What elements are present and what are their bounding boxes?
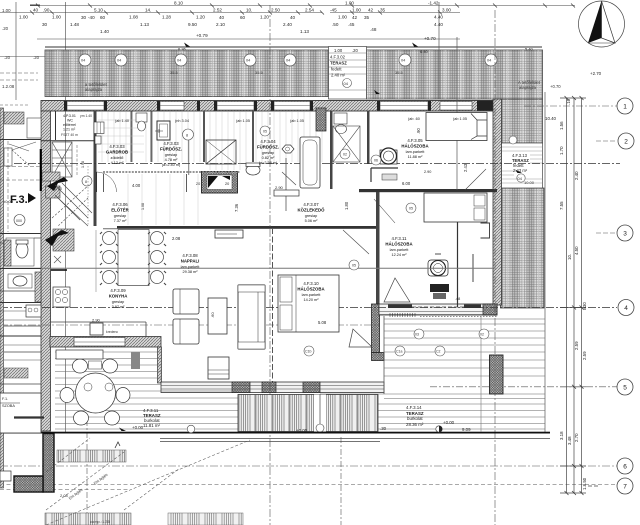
svg-text:1.00: 1.00 <box>338 15 347 20</box>
svg-text:1.00: 1.00 <box>52 15 61 20</box>
svg-text:GARDROB: GARDROB <box>106 150 128 155</box>
bathroom walls verticals <box>330 111 333 189</box>
svg-text:3.18: 3.18 <box>559 431 564 440</box>
svg-text:előtérrel: előtérrel <box>63 123 76 127</box>
svg-text:4.F.3.03: 4.F.3.03 <box>163 141 179 146</box>
annex dashed lines <box>0 141 41 232</box>
section line through kitchen <box>0 267 493 269</box>
svg-text:04: 04 <box>246 59 250 63</box>
svg-text:02: 02 <box>480 333 484 337</box>
section arrow upper at west wall <box>42 172 60 181</box>
wall pier above bathtub <box>316 108 326 131</box>
svg-text:+0.70: +0.70 <box>550 84 561 89</box>
svg-text:WC: WC <box>67 119 73 123</box>
svg-text:1.28: 1.28 <box>162 15 171 20</box>
svg-text:42: 42 <box>352 15 358 20</box>
svg-text:30: 30 <box>42 22 48 27</box>
svg-text:0.82 m²: 0.82 m² <box>262 156 276 160</box>
terrace filled circle markers <box>187 425 442 433</box>
top dimension tick marks <box>30 4 575 15</box>
svg-text:.45: .45 <box>348 22 355 27</box>
svg-text:.90: .90 <box>43 8 50 13</box>
small flag arrows on roof top edge <box>184 43 418 95</box>
svg-text:F.1.: F.1. <box>2 397 8 401</box>
vertical axis x457 <box>456 37 458 190</box>
vertical axis x439 top <box>438 2 440 99</box>
svg-text:8.10: 8.10 <box>174 1 183 6</box>
side table <box>208 357 229 379</box>
svg-text:1.13: 1.13 <box>140 22 149 27</box>
bathroom tile grid light lines <box>98 112 322 225</box>
kitchen hob counter <box>53 287 70 307</box>
svg-text:5.06 m²: 5.06 m² <box>305 219 319 223</box>
svg-text:8: 8 <box>85 180 87 184</box>
svg-text:14.20 m²: 14.20 m² <box>304 298 320 302</box>
bedroom2 right partition <box>457 222 459 307</box>
svg-text:05: 05 <box>352 264 356 268</box>
svg-text:lam.parkett: lam.parkett <box>302 293 322 297</box>
svg-text:1.70: 1.70 <box>559 146 564 155</box>
svg-text:2.90: 2.90 <box>92 318 101 323</box>
svg-text:.20: .20 <box>2 26 9 31</box>
svg-text:.90: .90 <box>416 128 421 134</box>
svg-text:±0.00: ±0.00 <box>3 199 14 204</box>
svg-text:30: 30 <box>81 15 87 20</box>
svg-text:2.40: 2.40 <box>283 22 292 27</box>
svg-text:5.08: 5.08 <box>318 320 327 325</box>
svg-text:1.00: 1.00 <box>334 48 343 53</box>
bedroom2 tv cabinet <box>430 284 449 292</box>
svg-text:.48: .48 <box>455 297 460 301</box>
svg-text:42: 42 <box>368 8 374 13</box>
pier below south glass wall <box>372 304 380 353</box>
svg-text:7.36: 7.36 <box>234 203 239 212</box>
svg-text:1.00: 1.00 <box>352 8 361 13</box>
right terrace label <box>380 405 471 432</box>
annex washbasin <box>8 274 32 288</box>
svg-text:FÜRDŐSZ.: FÜRDŐSZ. <box>160 147 182 152</box>
top dimension text row 1 <box>33 1 451 13</box>
svg-text:1.00: 1.00 <box>2 8 11 13</box>
axis mid living <box>0 324 379 326</box>
svg-text:35.5: 35.5 <box>395 70 404 75</box>
svg-text:35: 35 <box>364 15 370 20</box>
svg-text:04: 04 <box>286 59 290 63</box>
circle tag bathroom1 <box>183 129 194 140</box>
svg-text:4.00: 4.00 <box>132 183 141 188</box>
interior dimension texts <box>115 117 468 325</box>
svg-text:fedett: fedett <box>331 67 342 72</box>
roof hatch right wing lower <box>501 188 545 308</box>
terrace edge thick line <box>0 170 550 434</box>
living room sofa <box>238 285 265 349</box>
bath2 door diagonal <box>282 172 296 185</box>
window openings in north wall <box>67 102 472 111</box>
dark window frame blocks <box>64 101 499 111</box>
vertical axis x341 bottom <box>340 437 342 525</box>
svg-text:alaprajza: alaprajza <box>85 87 103 92</box>
svg-text:(ab 1.40: (ab 1.40 <box>115 119 129 123</box>
svg-text:ym 1.40: ym 1.40 <box>80 114 92 118</box>
annex hatched pier mid <box>4 240 11 266</box>
svg-text:2.70: 2.70 <box>574 433 579 442</box>
section cut arrow black <box>45 230 69 246</box>
svg-text:.30: .30 <box>380 426 387 431</box>
svg-text:04: 04 <box>81 59 85 63</box>
corridor beam dashed line <box>103 171 240 173</box>
svg-text:4.F.3.10: 4.F.3.10 <box>303 281 319 286</box>
svg-text:.20: .20 <box>4 55 11 60</box>
svg-text:3.00: 3.00 <box>442 8 451 13</box>
vertical line x545 terrace edge <box>544 92 546 433</box>
svg-text:1.48: 1.48 <box>70 22 79 27</box>
svg-text:lam.parkett: lam.parkett <box>406 150 426 154</box>
kitchen dining table <box>118 230 149 286</box>
svg-text:20: 20 <box>225 182 229 186</box>
svg-text:2.59: 2.59 <box>574 341 579 350</box>
svg-text:4.F.3.06: 4.F.3.06 <box>112 202 128 207</box>
vertical axis x270 <box>269 5 271 525</box>
top dimension text row 3 <box>42 22 443 41</box>
wc toilet near chimney <box>246 163 260 175</box>
svg-text:2.40: 2.40 <box>574 171 579 180</box>
bedroom1 south wall <box>359 189 497 192</box>
svg-text:11.81 m²: 11.81 m² <box>143 423 161 428</box>
roof hatch right wing upper <box>501 99 543 143</box>
svg-text:(ab .60: (ab .60 <box>408 117 420 121</box>
svg-text:40: 40 <box>290 15 296 20</box>
terrace boundary verticals <box>480 316 482 432</box>
svg-text:10.00: 10.00 <box>524 180 535 185</box>
svg-text:5.10: 5.10 <box>94 8 103 13</box>
south glass wall of bedrooms <box>379 304 497 317</box>
svg-text:4.12 m²: 4.12 m² <box>111 161 125 165</box>
svg-text:(ab 1.05: (ab 1.05 <box>236 119 250 123</box>
kitchen counter edge <box>51 269 67 271</box>
svg-text:11.88 m²: 11.88 m² <box>408 155 423 159</box>
north exterior wall band <box>41 101 499 112</box>
svg-text:C1a: C1a <box>396 350 402 354</box>
pergola hatch on middle terrace <box>238 395 378 433</box>
svg-text:6.00: 6.00 <box>402 181 411 186</box>
svg-text:.20: .20 <box>352 48 358 53</box>
svg-text:1.00: 1.00 <box>19 15 28 20</box>
axis tag circles interior <box>260 126 517 270</box>
svg-text:40: 40 <box>219 15 225 20</box>
axis line 7b <box>0 489 130 491</box>
svg-text:05: 05 <box>409 207 413 211</box>
svg-text:04: 04 <box>344 81 349 86</box>
outdoor bench top <box>56 350 103 359</box>
svg-text:FÜRDŐSZ.: FÜRDŐSZ. <box>257 145 279 150</box>
axis line A horizontal <box>0 163 620 165</box>
svg-text:4.F.3.07: 4.F.3.07 <box>303 202 319 207</box>
roof hatch top band right <box>367 47 543 99</box>
garden wall corner horizontal <box>14 476 43 492</box>
svg-text:7.37 m²: 7.37 m² <box>114 219 128 223</box>
svg-text:04: 04 <box>487 59 491 63</box>
svg-text:3.48: 3.48 <box>567 436 572 445</box>
vertical axis x494 dashed <box>494 10 496 525</box>
svg-text:3: 3 <box>623 231 627 238</box>
entry stairs diagonals <box>52 183 92 220</box>
svg-text:1.80: 1.80 <box>344 201 349 210</box>
svg-text:35.5: 35.5 <box>170 70 179 75</box>
svg-text:9.50: 9.50 <box>188 22 197 27</box>
svg-text:35.5: 35.5 <box>255 70 264 75</box>
svg-text:HÁLÓSZOBA: HÁLÓSZOBA <box>297 287 324 292</box>
svg-text:2.08: 2.08 <box>172 236 181 241</box>
slope dashed diagonals <box>46 438 250 525</box>
paving strip upper <box>57 450 126 462</box>
svg-text:(nh 3.04: (nh 3.04 <box>175 119 189 123</box>
svg-text:1.20: 1.20 <box>196 15 205 20</box>
kitchen sink small block <box>131 352 140 369</box>
entry small room walls <box>41 111 97 141</box>
svg-text:10.: 10. <box>246 8 252 13</box>
living room armchair 2 <box>173 319 199 344</box>
paving strip bottom <box>45 513 131 525</box>
svg-text:05: 05 <box>263 130 267 134</box>
svg-text:4.50: 4.50 <box>574 246 579 255</box>
bathroom2 washbasin hexagon <box>282 145 294 153</box>
svg-text:.60: .60 <box>210 312 215 318</box>
svg-text:000: 000 <box>16 219 22 223</box>
svg-text:.50: .50 <box>332 22 339 27</box>
svg-text:+0.00: +0.00 <box>132 425 144 430</box>
svg-text:NAPPALI: NAPPALI <box>181 259 200 264</box>
svg-text:4.78 m²: 4.78 m² <box>165 158 179 162</box>
svg-text:FSZT 40 m: FSZT 40 m <box>61 133 78 137</box>
svg-text:HÁLÓSZOBA: HÁLÓSZOBA <box>401 144 428 149</box>
svg-text:4.F.3.11: 4.F.3.11 <box>392 236 408 241</box>
svg-text:6: 6 <box>623 464 627 471</box>
corridor south wall <box>117 226 376 229</box>
svg-text:28.36 m²: 28.36 m² <box>406 422 424 427</box>
svg-text:1.21 m²: 1.21 m² <box>63 128 76 132</box>
svg-text:TERASZ: TERASZ <box>330 61 347 66</box>
axis to circle 3 <box>596 232 617 234</box>
bedroom1 stove <box>380 148 397 164</box>
F.3. arrow <box>28 193 36 203</box>
svg-text:-40: -40 <box>88 15 95 20</box>
svg-text:4.P.3.01: 4.P.3.01 <box>63 114 76 118</box>
bathroom1 washbasin <box>157 121 170 140</box>
svg-text:3.97 m²: 3.97 m² <box>112 305 126 309</box>
entry door arc <box>97 172 117 192</box>
svg-text:lam.parkett: lam.parkett <box>181 265 201 269</box>
svg-text:4.F.3.14: 4.F.3.14 <box>406 405 422 410</box>
svg-text:7: 7 <box>623 484 627 491</box>
covered terrace gap in right wing <box>501 143 543 188</box>
svg-text:2.52: 2.52 <box>213 8 222 13</box>
annex west wall <box>0 108 4 488</box>
covered terrace gap in top band <box>329 47 367 100</box>
svg-text:7.55: 7.55 <box>559 201 564 210</box>
svg-text:04: 04 <box>177 59 181 63</box>
svg-text:5: 5 <box>623 385 627 392</box>
svg-text:10.: 10. <box>567 254 572 260</box>
chimney block <box>196 172 238 194</box>
svg-text:greslap: greslap <box>165 153 177 157</box>
svg-text:2: 2 <box>624 139 628 146</box>
svg-text:(a=2.58 m): (a=2.58 m) <box>259 161 278 165</box>
svg-text:1.20: 1.20 <box>260 15 269 20</box>
svg-text:1.56: 1.56 <box>559 121 564 130</box>
bathroom1 shower <box>206 140 236 164</box>
annex storage hatch <box>4 368 28 378</box>
axis line 4 horizontal <box>0 307 617 309</box>
svg-text:1.40: 1.40 <box>100 29 109 34</box>
svg-text:2.10: 2.10 <box>216 22 225 27</box>
svg-text:+2.70: +2.70 <box>590 71 602 76</box>
svg-text:4.F.3.05: 4.F.3.05 <box>407 138 423 143</box>
svg-text:1.08: 1.08 <box>141 203 145 210</box>
annex dark kitchen block <box>26 305 41 317</box>
svg-text:12.24 m²: 12.24 m² <box>392 253 408 257</box>
top dimension chain lines <box>0 2 575 433</box>
svg-text:10.40: 10.40 <box>545 116 557 121</box>
axis to circle 2 <box>596 140 617 142</box>
west exterior wall (hatched vertical) <box>41 111 51 431</box>
svg-text:burkolat: burkolat <box>407 416 423 421</box>
svg-text:2.40 m²: 2.40 m² <box>331 73 346 78</box>
svg-text:KÖZLEKEDŐ: KÖZLEKEDŐ <box>298 208 326 213</box>
left margin small texts <box>2 8 40 89</box>
x mark <box>54 256 61 263</box>
svg-text:6.40: 6.40 <box>420 49 429 54</box>
svg-text:2.90: 2.90 <box>275 185 284 190</box>
svg-text:C1b: C1b <box>305 350 311 354</box>
connector wall x159 <box>158 347 162 383</box>
door swings <box>58 169 486 254</box>
roof hatch top band left <box>45 47 329 97</box>
svg-text:04: 04 <box>401 59 405 63</box>
svg-text:29.38 m²: 29.38 m² <box>183 270 199 274</box>
svg-text:1.98: 1.98 <box>81 161 85 168</box>
svg-text:comp.:1.35: comp.:1.35 <box>90 519 111 524</box>
svg-text:+0.79: +0.79 <box>196 33 208 38</box>
living room armchair 1 <box>173 289 199 314</box>
gardrob diagonal wardrobe <box>52 142 72 177</box>
svg-text:8: 8 <box>186 134 188 138</box>
svg-text:06: 06 <box>374 159 378 163</box>
svg-text:60: 60 <box>240 15 246 20</box>
svg-text:(ab 1.05: (ab 1.05 <box>453 117 467 121</box>
wc small between gardrob and bath <box>136 113 147 122</box>
svg-text:.48: .48 <box>370 27 377 32</box>
svg-text:SZOBA: SZOBA <box>2 404 15 408</box>
axis to circle 5 <box>430 386 617 388</box>
svg-text:04: 04 <box>518 176 523 181</box>
ramp triangle markers <box>349 278 410 347</box>
entry wc fixtures <box>94 122 104 144</box>
annex bottom room <box>0 393 44 433</box>
svg-text:40: 40 <box>33 8 39 13</box>
living room south wall band <box>161 382 384 393</box>
axis line 7 <box>0 484 617 486</box>
left margin dashes <box>0 57 45 106</box>
bathtub right bathroom <box>300 137 320 188</box>
right terrace deck lines <box>255 319 545 429</box>
svg-text:1: 1 <box>623 104 627 111</box>
svg-text:35: 35 <box>380 8 386 13</box>
annex wc toilet <box>6 238 34 266</box>
bedroom1 shelf <box>371 168 398 182</box>
svg-text:4.F.3.08: 4.F.3.08 <box>182 253 198 258</box>
svg-text:+0.00: +0.00 <box>296 428 308 433</box>
top dimension text row 2 <box>19 15 443 21</box>
svg-text:.20: .20 <box>33 55 40 60</box>
svg-text:1.00: 1.00 <box>345 1 354 6</box>
svg-text:greslap: greslap <box>305 214 317 218</box>
annex white counter bottom <box>0 471 11 481</box>
corner wc fixtures <box>334 113 347 124</box>
annex lower room lines <box>0 311 41 360</box>
svg-text:greslap: greslap <box>114 214 126 218</box>
svg-text:lam.parkett: lam.parkett <box>390 248 410 252</box>
svg-text:C2: C2 <box>436 350 441 354</box>
dining round table <box>60 359 130 425</box>
svg-text:4: 4 <box>624 305 628 312</box>
svg-text:ELŐTÉR: ELŐTÉR <box>111 208 129 213</box>
axis line 6 <box>0 465 617 467</box>
svg-text:04: 04 <box>117 59 121 63</box>
kitchen island small <box>51 321 146 323</box>
svg-text:kredenc: kredenc <box>106 330 118 334</box>
terrace dimension small line <box>160 439 550 442</box>
vertical axis x87 bottom <box>86 420 88 525</box>
svg-text:(a=2.40 m): (a=2.40 m) <box>162 163 181 167</box>
bedroom2/3 wall <box>376 192 380 304</box>
left terrace label <box>132 408 308 433</box>
svg-text:4.F.3.09: 4.F.3.09 <box>110 288 126 293</box>
pantry hatch block <box>53 229 74 251</box>
level mark circle <box>14 215 25 226</box>
roof tag circles <box>79 54 497 66</box>
bedroom3 left partition <box>272 228 274 382</box>
svg-text:02: 02 <box>343 153 347 157</box>
svg-text:-1.42: -1.42 <box>428 1 439 6</box>
bedroom1 bed <box>426 113 487 141</box>
svg-text:4.F.3.02: 4.F.3.02 <box>330 55 346 60</box>
bedroom2 stove pot <box>428 254 448 276</box>
svg-text:+0.70: +0.70 <box>424 36 436 41</box>
svg-text:14.: 14. <box>145 8 151 13</box>
kitchen-dining south wall with window <box>50 337 161 348</box>
svg-text:1.2.08: 1.2.08 <box>2 84 15 89</box>
svg-text:60: 60 <box>100 15 106 20</box>
bedroom2 bed <box>424 193 487 222</box>
svg-text:+0.00: +0.00 <box>443 420 455 425</box>
svg-text:2.54: 2.54 <box>305 8 314 13</box>
svg-text:-45: -45 <box>330 8 337 13</box>
svg-text:4.F.3.03: 4.F.3.03 <box>109 144 125 149</box>
svg-text:2.59: 2.59 <box>582 351 587 360</box>
svg-text:E30: E30 <box>582 302 587 310</box>
svg-text:2.43: 2.43 <box>463 163 468 172</box>
annex upper hatched pieces <box>4 112 24 124</box>
bedroom3 bed <box>278 275 339 332</box>
svg-text:1.13: 1.13 <box>300 29 309 34</box>
annex upper room walls <box>0 140 41 337</box>
kitchen chairs group (6) <box>100 232 166 286</box>
left lower terrace deck lines <box>55 352 238 429</box>
annex middle room fixtures <box>4 148 30 166</box>
svg-text:5.40: 5.40 <box>525 47 534 52</box>
svg-text:KONYHA: KONYHA <box>109 294 128 299</box>
rotated dimension texts right strip <box>545 71 602 490</box>
